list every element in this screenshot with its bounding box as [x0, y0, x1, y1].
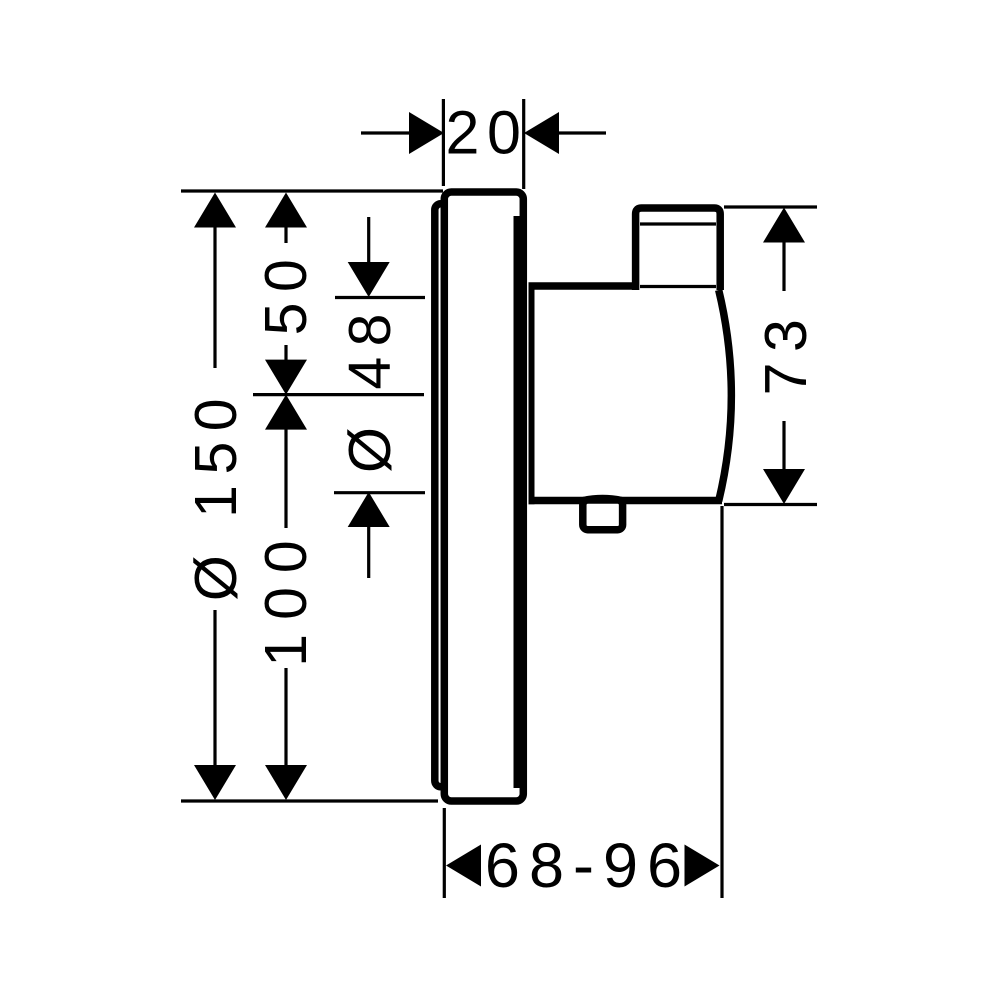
svg-text:50: 50	[253, 249, 319, 336]
dim Ø150 arrow bottom	[194, 765, 236, 800]
dim 73 line upper	[782, 241, 785, 291]
svg-text:Ø 48: Ø 48	[337, 303, 403, 473]
dim 20 arrow left	[409, 112, 444, 154]
svg-text:73: 73	[753, 309, 819, 396]
dim 73 line lower	[782, 421, 785, 470]
object line top (plate top reference)	[181, 189, 443, 192]
dim Ø150 line lower	[213, 610, 216, 766]
dim 50 line upper	[284, 226, 287, 243]
dim 50 line lower	[284, 345, 287, 361]
escutcheon plate (side view)	[444, 192, 523, 801]
dim Ø150 line upper	[213, 226, 216, 368]
dim 73 extension line top	[724, 205, 817, 208]
svg-text:20: 20	[445, 99, 528, 167]
dim 20 line right	[558, 131, 606, 134]
dim Ø48 arrow top	[348, 262, 390, 297]
valve body top edge	[529, 282, 637, 290]
shut-off handle bottom line	[640, 285, 716, 288]
dim 20 line left	[361, 131, 410, 134]
supply stub	[583, 500, 623, 530]
supply stub bump	[584, 499, 622, 501]
svg-text:68-96: 68-96	[485, 831, 691, 901]
shut-off handle box	[636, 208, 721, 290]
escutcheon front face line	[514, 216, 521, 788]
dim Ø48 line upper	[367, 217, 370, 263]
mid reference line (50/100 junction)	[253, 393, 424, 396]
dim 50 arrow top	[265, 193, 307, 228]
dim Ø150 arrow top	[194, 193, 236, 228]
dim 100 arrow bottom	[265, 765, 307, 800]
dim 100 line lower	[284, 668, 287, 766]
dim Ø48 arrow bottom	[348, 492, 390, 527]
dim 100 arrow top	[265, 395, 307, 430]
svg-text:100: 100	[253, 526, 319, 666]
wall flange (back plate)	[435, 204, 461, 787]
dim Ø48 extension line top	[335, 296, 425, 299]
dim 68-96 arrow right	[685, 845, 720, 887]
valve body bottom edge	[529, 497, 723, 505]
dim 50 arrow bottom	[265, 360, 307, 395]
dim 68-96 extension line left	[443, 808, 446, 898]
dim 73 extension line bottom	[724, 503, 817, 506]
dim Ø48 line lower	[367, 526, 370, 578]
object line bottom (plate bottom reference)	[181, 799, 438, 802]
dim 100 line upper	[284, 428, 287, 528]
valve body right edge (cylindrical bulge)	[719, 290, 732, 501]
dim 73 arrow bottom	[763, 469, 805, 504]
svg-text:Ø 150: Ø 150	[183, 388, 249, 601]
dim 20 extension line left	[442, 99, 445, 186]
dim Ø48 extension line bottom	[334, 491, 425, 494]
shut-off handle cap line	[640, 222, 716, 225]
dim 73 arrow top	[763, 208, 805, 243]
dim 68-96 extension line right	[720, 506, 723, 898]
dim 20 arrow right	[524, 112, 559, 154]
dim 20 extension line right	[522, 99, 525, 189]
valve body left edge	[529, 283, 535, 505]
dim 68-96 arrow left	[446, 845, 481, 887]
